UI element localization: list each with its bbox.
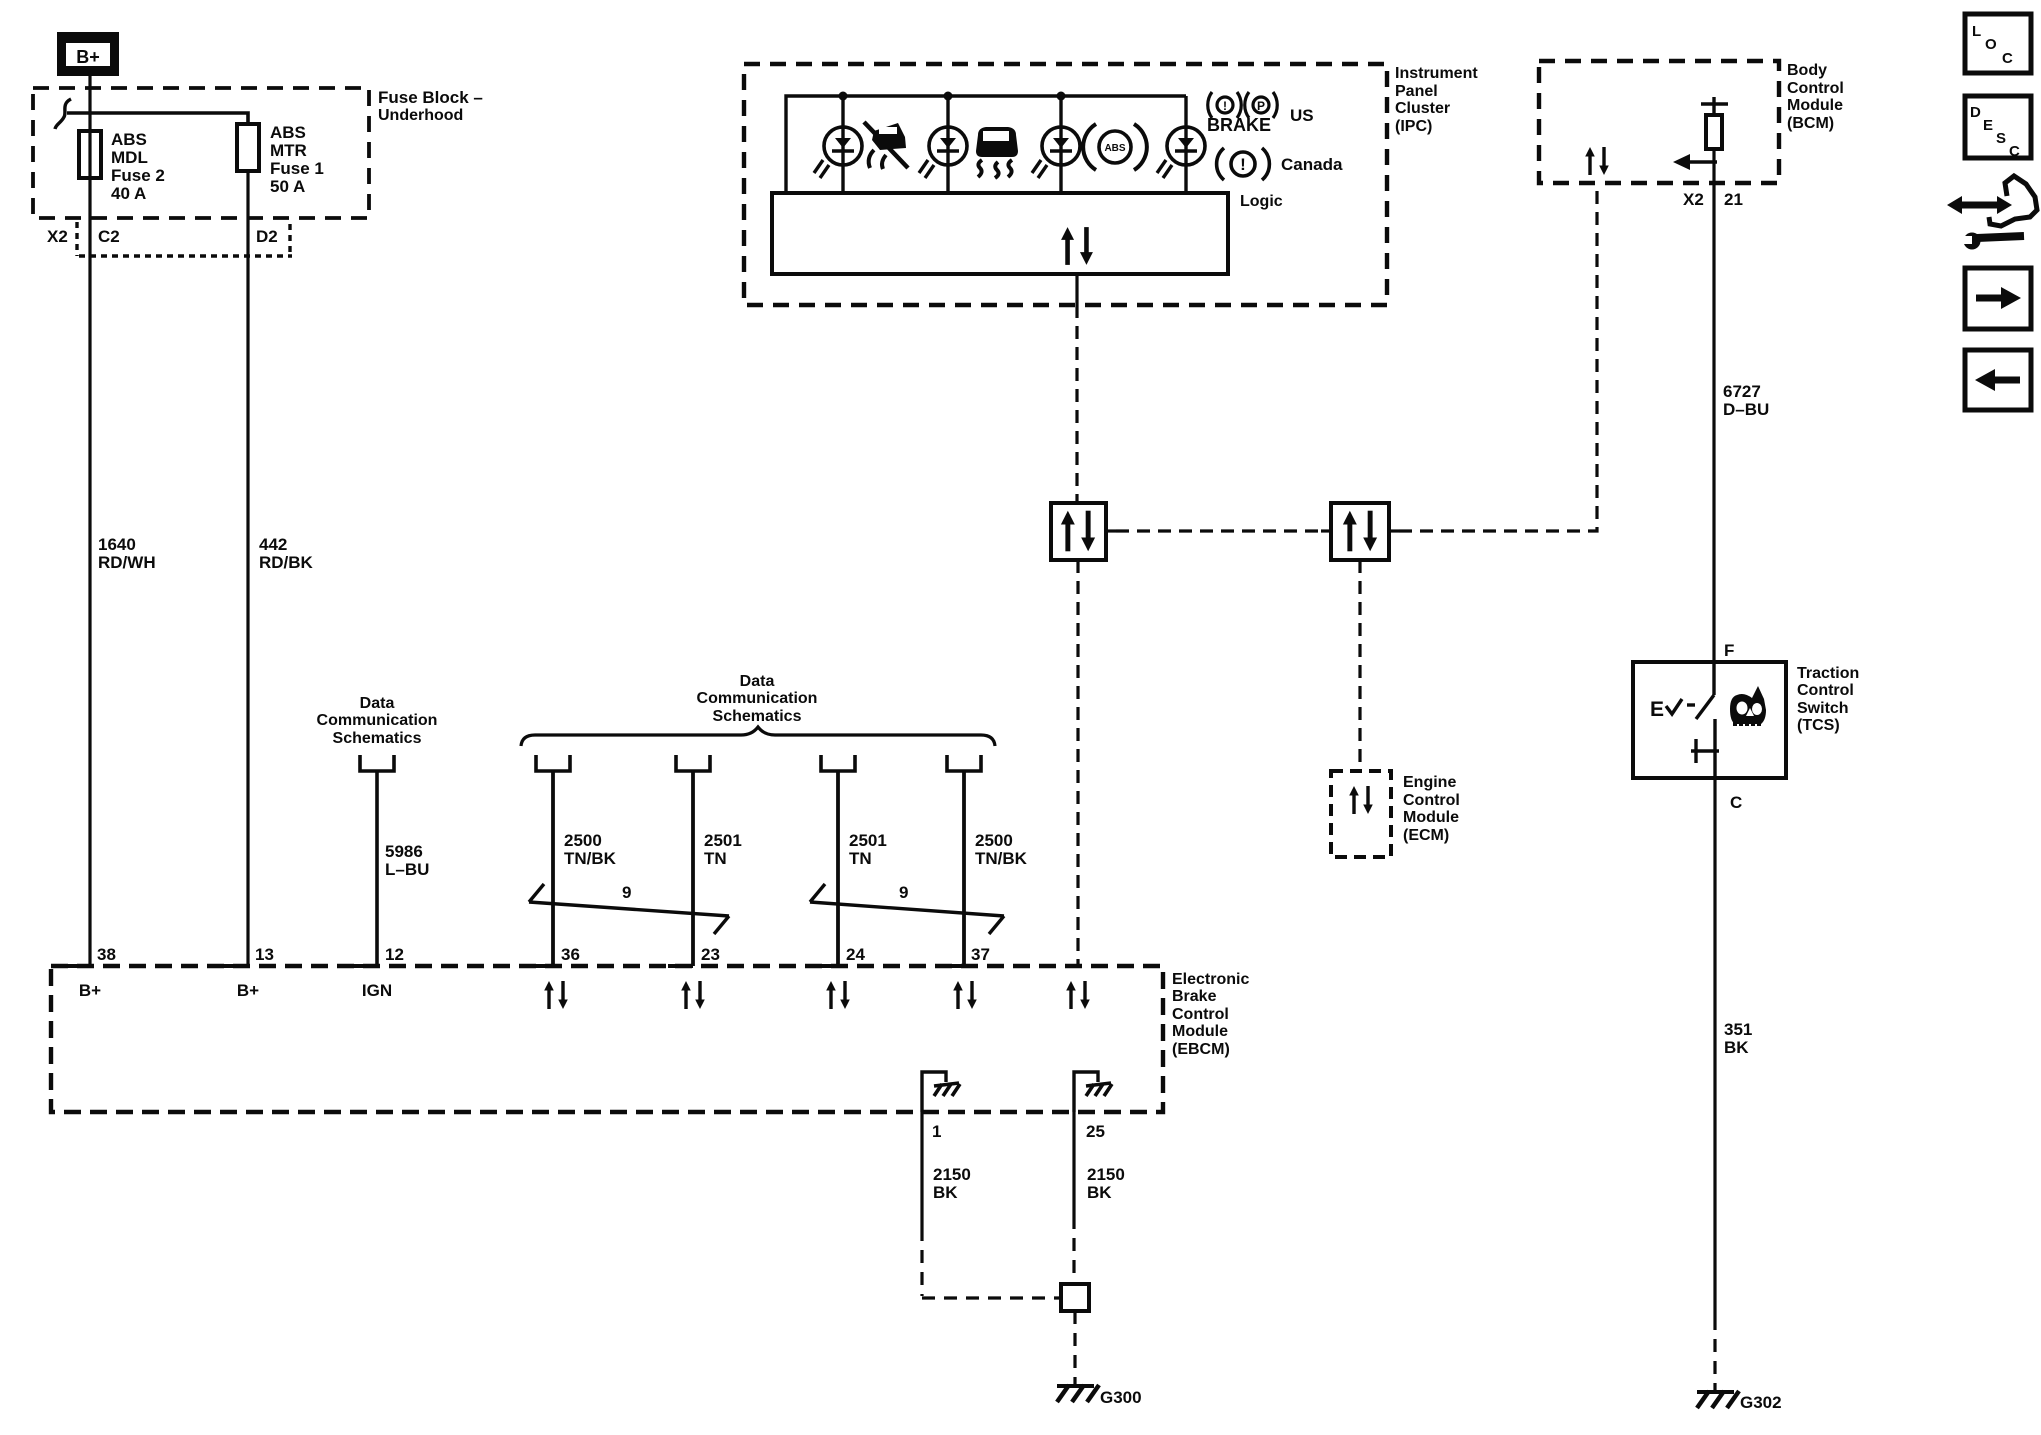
svg-text:L: L (1972, 23, 1981, 40)
EBCM pin number labels (97, 945, 990, 964)
svg-text:Control: Control (1403, 792, 1460, 809)
svg-text:G302: G302 (1740, 1393, 1782, 1412)
svg-text:Brake: Brake (1172, 988, 1217, 1005)
svg-text:Fuse 1: Fuse 1 (270, 159, 324, 178)
svg-text:Logic: Logic (1240, 193, 1283, 210)
svg-text:X2: X2 (1683, 190, 1704, 209)
svg-text:37: 37 (971, 945, 990, 964)
svg-text:Schematics: Schematics (333, 730, 422, 747)
label data communication schematics left (317, 695, 438, 747)
wire 2150 BK pin 1 (922, 1112, 1061, 1298)
svg-text:2150: 2150 (933, 1165, 971, 1184)
svg-text:TN/BK: TN/BK (975, 849, 1028, 868)
off-page connector fork 5986 (360, 755, 394, 771)
label Fuse Block Underhood (378, 88, 483, 124)
svg-text:IGN: IGN (362, 981, 392, 1000)
serial data wire IPC down (1075, 274, 1078, 305)
IPC logic block (772, 193, 1228, 274)
BCM terminator bar (1701, 97, 1728, 115)
svg-text:2150: 2150 (1087, 1165, 1125, 1184)
svg-text:(IPC): (IPC) (1395, 118, 1432, 135)
EBCM serial arrows (544, 981, 568, 1009)
svg-text:Fuse Block –: Fuse Block – (378, 88, 483, 107)
off-page connector fork 2501 left (676, 755, 710, 771)
svg-text:!: ! (1223, 99, 1227, 113)
wire label 1640 RD/WH (98, 535, 156, 572)
svg-text:Module: Module (1172, 1023, 1228, 1040)
svg-text:RD/BK: RD/BK (259, 553, 314, 572)
node dot 2 (944, 92, 953, 101)
svg-text:C: C (2002, 50, 2013, 67)
svg-text:6727: 6727 (1723, 382, 1761, 401)
svg-text:1640: 1640 (98, 535, 136, 554)
svg-text:Canada: Canada (1281, 155, 1343, 174)
bus bar curl (55, 99, 71, 129)
LOC nav box (1965, 14, 2031, 73)
svg-text:2500: 2500 (564, 831, 602, 850)
svg-text:X2: X2 (47, 227, 68, 246)
serial data arrows in logic block (1061, 227, 1093, 265)
wire B+ feed down left (circuit 1640) (88, 76, 91, 966)
svg-text:B+: B+ (237, 981, 259, 1000)
EBCM internal ground pin 25 (1074, 1072, 1112, 1112)
svg-text:(BCM): (BCM) (1787, 115, 1834, 132)
svg-text:Data: Data (740, 673, 775, 690)
svg-text:50 A: 50 A (270, 177, 305, 196)
svg-text:Switch: Switch (1797, 700, 1849, 717)
connector X2 row (47, 222, 292, 256)
svg-text:12: 12 (385, 945, 404, 964)
svg-text:B+: B+ (79, 981, 101, 1000)
svg-text:B+: B+ (76, 47, 100, 67)
svg-text:BK: BK (933, 1183, 958, 1202)
svg-text:Engine: Engine (1403, 774, 1456, 791)
svg-text:BRAKE: BRAKE (1207, 115, 1271, 135)
svg-text:TN/BK: TN/BK (564, 849, 617, 868)
svg-text:G300: G300 (1100, 1388, 1142, 1407)
lamp bus wire (786, 96, 1186, 193)
splice S-box (1061, 1284, 1089, 1311)
svg-text:Cluster: Cluster (1395, 100, 1450, 117)
label Body Control Module BCM (1787, 62, 1844, 132)
fuse ABS MDL Fuse 2 40A (79, 130, 165, 203)
brake telltale Canada icon (1217, 148, 1343, 180)
svg-text:US: US (1290, 106, 1314, 125)
wire 2500 TN/BK right (962, 770, 966, 966)
node dot 1 (839, 92, 848, 101)
dashed serial wire box2 to BCM (1389, 529, 1399, 532)
fuse ABS MTR Fuse 1 50A (237, 123, 324, 196)
dashed serial wire box1 to box2 (1106, 529, 1116, 532)
TCS box (1633, 662, 1786, 778)
svg-text:9: 9 (622, 883, 631, 902)
dashed serial wire box1 to EBCM (1076, 560, 1079, 966)
wire fuse1 output down (circuit 442) (246, 171, 249, 966)
B+ battery feed symbol (57, 32, 119, 76)
svg-text:L–BU: L–BU (385, 860, 429, 879)
svg-text:Communication: Communication (697, 690, 818, 707)
curly brace over data wires (521, 727, 995, 746)
svg-text:2500: 2500 (975, 831, 1013, 850)
svg-text:(TCS): (TCS) (1797, 717, 1840, 734)
svg-text:(ECM): (ECM) (1403, 827, 1449, 844)
svg-text:21: 21 (1724, 190, 1743, 209)
wire label 442 RD/BK (259, 535, 314, 572)
svg-text:F: F (1724, 641, 1734, 660)
vehicle stability icon (976, 127, 1018, 178)
label Electronic Brake Control Module EBCM (1172, 971, 1249, 1058)
svg-text:Schematics: Schematics (713, 708, 802, 725)
svg-text:Module: Module (1403, 809, 1459, 826)
svg-text:Fuse 2: Fuse 2 (111, 166, 165, 185)
svg-text:13: 13 (255, 945, 274, 964)
DESC nav box (1965, 96, 2031, 160)
svg-text:Traction: Traction (1797, 665, 1859, 682)
svg-text:Control: Control (1797, 682, 1854, 699)
wire branch to ABS MTR fuse (67, 113, 248, 124)
label data communication schematics right (697, 673, 818, 725)
BCM dashed box (1539, 61, 1779, 183)
ground G302 (1697, 1391, 1782, 1412)
svg-text:O: O (1985, 36, 1997, 53)
off-page connector fork 2500 left (536, 755, 570, 771)
EBCM dashed box (51, 966, 1163, 1112)
svg-text:(EBCM): (EBCM) (1172, 1041, 1230, 1058)
serial data arrows in BCM (1585, 147, 1609, 175)
svg-text:C: C (2009, 143, 2020, 160)
wire 351 BK (1713, 778, 1716, 1317)
twisted pair 2 (810, 883, 1004, 934)
svg-text:Data: Data (360, 695, 395, 712)
svg-text:Control: Control (1787, 80, 1844, 97)
nav arrow left box (1965, 350, 2031, 410)
svg-text:MTR: MTR (270, 141, 307, 160)
indicator lamp 4 (1157, 96, 1205, 193)
svg-text:Instrument: Instrument (1395, 65, 1478, 82)
svg-text:!: ! (1240, 155, 1246, 174)
svg-text:Panel: Panel (1395, 83, 1438, 100)
off-page connector fork 2501 right (821, 755, 855, 771)
svg-text:Control: Control (1172, 1006, 1229, 1023)
nav arrow right box (1965, 268, 2031, 329)
TCS pictograph (1730, 686, 1766, 724)
wire 5986 L-BU (375, 770, 379, 966)
off-page connector fork 2500 right (947, 755, 981, 771)
indicator lamp 1 (814, 96, 862, 193)
pin labels X2 21 (1683, 190, 1743, 209)
svg-text:E: E (1983, 117, 1993, 134)
svg-text:RD/WH: RD/WH (98, 553, 156, 572)
svg-text:BK: BK (1087, 1183, 1112, 1202)
EBCM pin entry ticks (65, 964, 964, 968)
EBCM internal pin names (79, 981, 392, 1000)
resistor in BCM (1706, 115, 1722, 149)
wire resistor to pin 21 (1712, 149, 1715, 183)
node dot 3 (1057, 92, 1066, 101)
label Instrument Panel Cluster (1395, 65, 1478, 135)
svg-text:9: 9 (899, 883, 908, 902)
svg-text:Communication: Communication (317, 712, 438, 729)
svg-text:D–BU: D–BU (1723, 400, 1769, 419)
ABS emblem (1083, 124, 1147, 170)
svg-text:Body: Body (1787, 62, 1827, 79)
svg-text:38: 38 (97, 945, 116, 964)
svg-text:BK: BK (1724, 1038, 1749, 1057)
brake telltale US icon (1207, 92, 1314, 135)
svg-text:D: D (1970, 104, 1981, 121)
label Engine Control Module ECM (1403, 774, 1460, 844)
signal arrow in BCM (1673, 154, 1717, 170)
wire 2501 TN left (691, 770, 695, 966)
svg-text:2501: 2501 (704, 831, 742, 850)
svg-text:C2: C2 (98, 227, 120, 246)
svg-text:Electronic: Electronic (1172, 971, 1249, 988)
svg-text:ABS: ABS (270, 123, 306, 142)
svg-text:1: 1 (932, 1122, 941, 1141)
indicator lamp 3 (1032, 96, 1080, 193)
svg-text:442: 442 (259, 535, 287, 554)
wire 2501 TN right (836, 770, 840, 966)
ground G300 (1057, 1385, 1142, 1407)
svg-text:D2: D2 (256, 227, 278, 246)
TCS switch blade and contacts (1691, 662, 1719, 778)
wire 6727 D-BU (1712, 183, 1715, 662)
label Traction Control Switch TCS (1797, 665, 1859, 734)
svg-text:P: P (1257, 99, 1265, 113)
svg-text:C: C (1730, 793, 1742, 812)
IPC dashed box (744, 64, 1387, 305)
svg-text:351: 351 (1724, 1020, 1752, 1039)
svg-text:S: S (1996, 130, 2006, 147)
svg-text:ABS: ABS (111, 130, 147, 149)
EBCM internal ground pin 1 (922, 1072, 960, 1112)
indicator lamp 2 (919, 96, 967, 193)
wire 2150 BK pin 25 (1074, 1112, 1125, 1284)
svg-text:MDL: MDL (111, 148, 148, 167)
diagnostic hand tool icon (1947, 176, 2037, 250)
svg-text:Underhood: Underhood (378, 107, 463, 124)
slip indicator icon (864, 122, 908, 169)
svg-text:Module: Module (1787, 97, 1843, 114)
svg-text:ABS: ABS (1104, 143, 1125, 154)
serial data junction box 1 (1051, 503, 1106, 560)
svg-text:40 A: 40 A (111, 184, 146, 203)
serial data junction box 2 (1331, 503, 1389, 560)
svg-text:TN: TN (704, 849, 727, 868)
svg-text:36: 36 (561, 945, 580, 964)
svg-text:TN: TN (849, 849, 872, 868)
svg-text:2501: 2501 (849, 831, 887, 850)
svg-text:23: 23 (701, 945, 720, 964)
svg-text:E: E (1650, 698, 1664, 721)
wire splice to G300 (1073, 1311, 1076, 1385)
svg-text:5986: 5986 (385, 842, 423, 861)
wire 2500 TN/BK left (551, 770, 555, 966)
twisted pair 1 (529, 883, 729, 934)
dashed serial wire box2 to ECM (1358, 560, 1361, 771)
svg-text:25: 25 (1086, 1122, 1105, 1141)
TCS switch label E (1650, 698, 1695, 721)
svg-text:24: 24 (846, 945, 865, 964)
fuse block underhood dashed box (33, 88, 369, 218)
ECM dashed box (1331, 771, 1391, 857)
